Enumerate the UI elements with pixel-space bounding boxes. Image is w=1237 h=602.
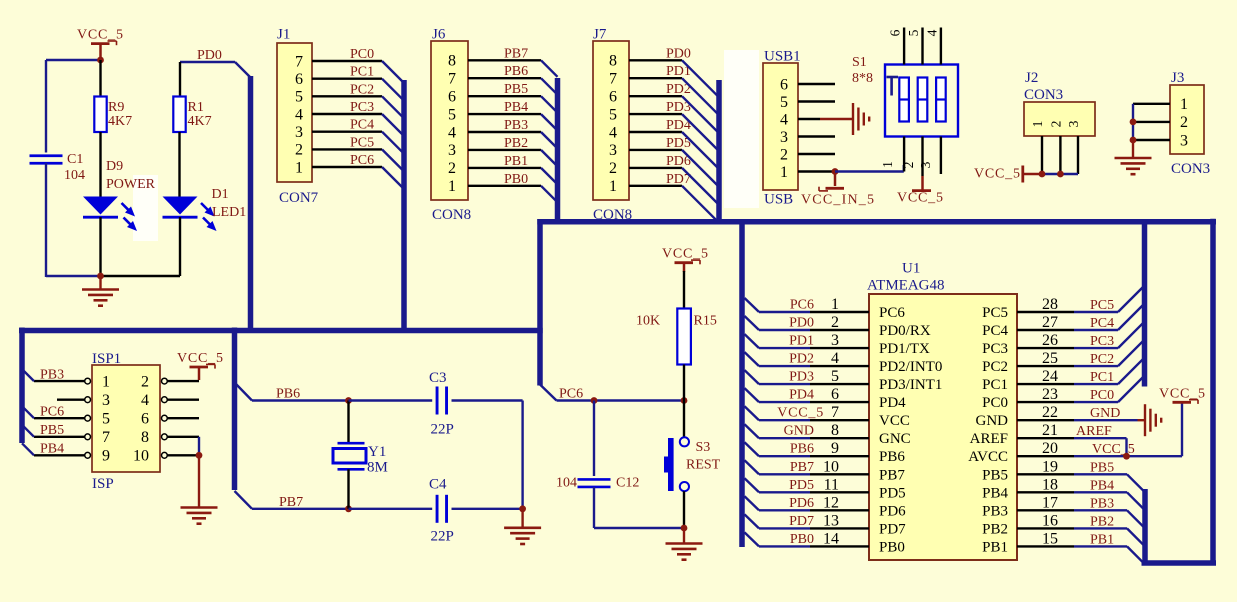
wire J3 common vertical — [1132, 104, 1134, 140]
svg-text:PD1: PD1 — [789, 334, 814, 349]
junction node J2 pin2 — [1057, 171, 1064, 178]
J6 pin wires — [468, 60, 541, 186]
svg-text:PC6: PC6 — [879, 305, 905, 321]
svg-text:AVCC: AVCC — [968, 449, 1008, 465]
USB1 pin wires — [798, 84, 835, 172]
bus ISP left vertical — [19, 328, 25, 444]
svg-text:CON3: CON3 — [1024, 87, 1063, 103]
svg-text:5: 5 — [102, 411, 110, 428]
svg-text:PB0: PB0 — [504, 172, 528, 187]
svg-text:R15: R15 — [694, 314, 717, 329]
svg-text:25: 25 — [1042, 350, 1058, 367]
svg-text:19: 19 — [1042, 458, 1058, 475]
svg-text:PC4: PC4 — [350, 118, 374, 133]
wire PB6 to C3 — [349, 399, 433, 401]
svg-text:1: 1 — [609, 178, 617, 195]
junction node J2 pin1 — [1039, 171, 1046, 178]
svg-text:VCC_5: VCC_5 — [77, 28, 124, 43]
U1 left net labels — [777, 298, 824, 547]
mcu U1 body ATMEAG48 — [869, 294, 1017, 560]
U1 pin numbers — [823, 296, 1058, 547]
switch S1 designator — [852, 55, 873, 86]
svg-text:PD7: PD7 — [879, 521, 906, 537]
connector ISP1 body — [92, 365, 160, 472]
svg-text:1: 1 — [1030, 121, 1045, 128]
wire R1 to D1 — [178, 132, 180, 197]
svg-text:VCC: VCC — [879, 413, 910, 429]
svg-text:3: 3 — [609, 142, 617, 159]
svg-text:ATMEAG48: ATMEAG48 — [867, 278, 945, 294]
svg-text:2: 2 — [780, 146, 788, 163]
net labels PD0-PD7 at J7 — [666, 46, 691, 187]
ground (ISP) — [181, 455, 218, 523]
wire PC6 horizontal — [557, 399, 685, 401]
led D9 POWER — [83, 159, 156, 231]
svg-text:VCC_5: VCC_5 — [177, 351, 224, 366]
wire VCC_5 to C1 branch (horizontal) — [46, 59, 101, 61]
junction node PB6/Y1 — [345, 397, 352, 404]
svg-text:PB5: PB5 — [1090, 460, 1114, 475]
svg-text:GND: GND — [784, 424, 814, 439]
svg-text:GND: GND — [976, 413, 1009, 429]
svg-text:PC2: PC2 — [350, 82, 374, 97]
bus J6 vertical — [555, 78, 561, 225]
svg-text:PB4: PB4 — [1090, 478, 1114, 493]
svg-text:PD6: PD6 — [879, 503, 906, 519]
wire D1 to ground rail — [179, 217, 181, 276]
svg-text:PD6: PD6 — [789, 496, 814, 511]
svg-text:PB4: PB4 — [982, 485, 1008, 501]
connector J2 designator — [1024, 70, 1063, 103]
junction node PC6/C12 — [591, 397, 598, 404]
svg-text:1: 1 — [448, 178, 456, 195]
wire PD0 diagonal into bus — [235, 62, 251, 78]
svg-text:AREF: AREF — [1076, 424, 1112, 439]
wire GND pin22 — [1074, 419, 1138, 421]
svg-text:PB3: PB3 — [504, 118, 528, 133]
wire Y1 top leg — [347, 401, 349, 445]
svg-text:U1: U1 — [902, 261, 920, 277]
ISP1 left diagonals from bus — [22, 369, 34, 455]
white patch near USB — [724, 50, 759, 208]
switch S3 REST — [664, 437, 721, 491]
J7 pin wires — [629, 60, 682, 186]
svg-text:5: 5 — [448, 106, 456, 123]
power port VCC_5 (ISP) — [177, 351, 224, 380]
svg-text:J2: J2 — [1025, 70, 1038, 86]
wire PB7 horizontal — [252, 508, 349, 510]
svg-text:3: 3 — [1180, 132, 1188, 149]
power port VCC_5 (S1) — [897, 176, 944, 206]
ground (USB pin4, rotated) — [820, 103, 869, 135]
svg-text:5: 5 — [906, 29, 921, 36]
svg-text:J3: J3 — [1171, 70, 1184, 86]
svg-text:4: 4 — [780, 111, 788, 128]
svg-text:6: 6 — [888, 29, 903, 36]
bus J7 vertical — [716, 80, 722, 225]
svg-text:8: 8 — [831, 422, 839, 439]
USB1 pin numbers 6-1 — [780, 76, 788, 181]
wire PD0 horizontal — [180, 62, 235, 97]
junction node C4/ground — [519, 505, 526, 512]
wire switch to ground node — [683, 491, 685, 528]
ground (crystal) — [504, 509, 541, 544]
svg-text:C3: C3 — [429, 370, 447, 386]
svg-text:11: 11 — [824, 476, 839, 493]
svg-text:PD0/RX: PD0/RX — [879, 323, 931, 339]
svg-text:PD2/INT0: PD2/INT0 — [879, 359, 942, 375]
svg-text:PC3: PC3 — [1090, 334, 1114, 349]
svg-text:5: 5 — [831, 368, 839, 385]
svg-text:CON3: CON3 — [1171, 161, 1210, 177]
junction node J3 pin2 — [1130, 119, 1137, 126]
connector J3 body CON3 — [1170, 85, 1204, 154]
svg-text:22: 22 — [1042, 404, 1058, 421]
S1 top pin wires — [904, 28, 941, 65]
svg-text:PB6: PB6 — [276, 387, 300, 402]
svg-text:PB6: PB6 — [504, 64, 528, 79]
svg-text:24: 24 — [1042, 368, 1058, 385]
ground (reset) — [666, 528, 703, 560]
J3 pin numbers 1 2 3 — [1180, 96, 1188, 149]
svg-text:CON8: CON8 — [432, 207, 471, 223]
bus horizontal mid (ISP row) — [19, 328, 543, 334]
svg-text:PC6: PC6 — [40, 405, 64, 420]
svg-text:1: 1 — [831, 296, 839, 313]
svg-text:4K7: 4K7 — [108, 114, 132, 129]
U1 right wires PB5-PB1 with diagonals down — [1074, 474, 1145, 563]
U1 right net labels — [1076, 298, 1135, 547]
svg-text:J1: J1 — [277, 27, 290, 43]
bus top of MCU section — [537, 219, 1216, 225]
label USB — [764, 192, 793, 208]
svg-text:6: 6 — [448, 89, 456, 106]
svg-text:8*8: 8*8 — [852, 71, 873, 86]
svg-text:1: 1 — [295, 159, 303, 176]
svg-text:2: 2 — [1180, 114, 1188, 131]
svg-text:13: 13 — [823, 512, 839, 529]
svg-text:7: 7 — [609, 71, 617, 88]
wire J2 bottom rail — [1042, 173, 1078, 175]
U1 left diagonals from bus — [745, 298, 760, 546]
junction node USB pin1 — [832, 168, 839, 175]
svg-text:PB2: PB2 — [1090, 514, 1114, 529]
S1 bottom pin numbers 1 2 3 — [880, 161, 933, 168]
svg-text:4: 4 — [924, 29, 939, 36]
svg-text:7: 7 — [295, 53, 303, 70]
bus U1 outer right vertical — [1210, 219, 1216, 563]
svg-text:PC2: PC2 — [1090, 352, 1114, 367]
svg-text:2: 2 — [295, 142, 303, 159]
svg-text:3: 3 — [102, 392, 110, 409]
S1 top pin numbers 6 5 4 — [888, 29, 940, 36]
svg-text:7: 7 — [831, 404, 839, 421]
connector J1 body CON7 — [277, 43, 312, 182]
svg-text:3: 3 — [295, 124, 303, 141]
S1 switch elements — [899, 78, 945, 122]
power port VCC_5 (J2, rotated) — [974, 166, 1042, 183]
svg-text:PC6: PC6 — [559, 387, 583, 402]
svg-text:PB7: PB7 — [790, 460, 814, 475]
junction node PC6/R15/S3 — [681, 397, 688, 404]
svg-text:GNC: GNC — [879, 431, 911, 447]
svg-text:PB3: PB3 — [1090, 496, 1114, 511]
svg-text:PC1: PC1 — [982, 377, 1008, 393]
svg-text:17: 17 — [1042, 494, 1058, 511]
net labels PC0-PC6 at J1 — [350, 47, 374, 168]
crystal Y1 8M — [333, 443, 388, 475]
wire bottom reset rail — [594, 527, 684, 529]
wire C12 bottom leg — [593, 487, 595, 528]
net label PD0 (top) — [197, 48, 222, 63]
J2 pin wires — [1042, 136, 1078, 174]
svg-text:PD0: PD0 — [666, 46, 691, 61]
J7 wire diagonals into bus — [682, 60, 719, 223]
svg-text:18: 18 — [1042, 476, 1058, 493]
svg-text:PD5: PD5 — [879, 485, 906, 501]
label CON7 — [279, 190, 319, 206]
J6 pin numbers 8-1 — [448, 53, 456, 196]
svg-text:10: 10 — [133, 448, 149, 465]
svg-text:PC1: PC1 — [1090, 370, 1114, 385]
wire VCC_5 to R15 — [683, 271, 685, 309]
svg-text:PC3: PC3 — [982, 341, 1008, 357]
U1 inside pin names — [879, 305, 1008, 555]
net labels PB3 PC6 PB5 PB4 — [40, 368, 64, 457]
net labels PB7-PB0 at J6 — [504, 46, 528, 187]
svg-text:2: 2 — [141, 373, 149, 390]
U1 right pin stubs — [1017, 312, 1074, 546]
svg-text:S1: S1 — [852, 55, 867, 70]
bus bottom right horizontal — [1142, 560, 1217, 566]
svg-text:8: 8 — [448, 53, 456, 70]
svg-text:PC0: PC0 — [1090, 388, 1114, 403]
svg-text:1: 1 — [1180, 96, 1188, 113]
bus U1 left vertical — [739, 219, 745, 547]
net label PC6 (reset) — [559, 387, 583, 402]
svg-text:4: 4 — [448, 124, 456, 141]
wire R15 to PC6 node — [683, 365, 685, 401]
svg-text:22P: 22P — [431, 422, 454, 438]
svg-text:4: 4 — [609, 124, 617, 141]
svg-text:VCC_5: VCC_5 — [1159, 387, 1206, 402]
svg-text:PC3: PC3 — [350, 100, 374, 115]
svg-text:PC4: PC4 — [1090, 316, 1114, 331]
svg-text:PB1: PB1 — [504, 154, 528, 169]
U1 left pin wires — [759, 312, 869, 546]
svg-text:3: 3 — [831, 332, 839, 349]
svg-text:PC5: PC5 — [982, 305, 1008, 321]
connector J6 body CON8 — [431, 41, 468, 200]
wire D9 to ground rail — [99, 217, 101, 277]
svg-text:C4: C4 — [429, 477, 447, 493]
label CON8 (J7) — [593, 207, 632, 223]
svg-text:8M: 8M — [367, 460, 388, 476]
svg-text:2: 2 — [901, 162, 916, 169]
svg-text:Y1: Y1 — [368, 444, 386, 460]
svg-text:USB: USB — [764, 192, 793, 208]
svg-text:6: 6 — [295, 71, 303, 88]
svg-text:22P: 22P — [431, 529, 454, 545]
capacitor C3 22P — [429, 370, 454, 438]
svg-text:1: 1 — [880, 161, 895, 168]
wire C1 top leg — [45, 60, 47, 153]
svg-text:7: 7 — [448, 71, 456, 88]
svg-text:D1: D1 — [212, 187, 229, 202]
label ISP — [92, 476, 114, 492]
junction node reset ground — [681, 525, 688, 532]
svg-text:PD0: PD0 — [789, 316, 814, 331]
svg-text:5: 5 — [295, 89, 303, 106]
svg-text:4: 4 — [141, 392, 149, 409]
svg-text:6: 6 — [141, 411, 149, 428]
svg-text:2: 2 — [1048, 121, 1063, 128]
svg-text:USB1: USB1 — [764, 49, 801, 65]
svg-text:2: 2 — [831, 314, 839, 331]
svg-text:PB5: PB5 — [40, 423, 64, 438]
svg-text:R1: R1 — [188, 100, 204, 115]
wire PC6 diagonal from bus — [540, 385, 557, 401]
connector USB1 body — [763, 63, 798, 190]
svg-text:VCC_5: VCC_5 — [777, 406, 824, 421]
svg-text:PD3/INT1: PD3/INT1 — [879, 377, 942, 393]
connector J7 designator — [593, 27, 607, 43]
junction node PB7/Y1 — [345, 505, 352, 512]
wire crystal caps right vertical — [521, 401, 523, 509]
svg-text:9: 9 — [831, 440, 839, 457]
wire PB7 to C4 — [349, 508, 433, 510]
svg-text:PD2: PD2 — [789, 352, 814, 367]
wire C12 top leg — [593, 401, 595, 477]
power port VCC_5 (AVCC) — [1159, 387, 1206, 404]
wire AVCC pin20 — [1074, 402, 1182, 456]
svg-text:PD1/TX: PD1/TX — [879, 341, 930, 357]
svg-text:PB1: PB1 — [982, 539, 1008, 555]
svg-text:2: 2 — [448, 160, 456, 177]
J6 wire diagonals into bus — [541, 60, 558, 202]
svg-text:PB5: PB5 — [982, 467, 1008, 483]
junction node at VCC_5 / R9 / C1 — [97, 57, 104, 64]
svg-text:VCC_IN_5: VCC_IN_5 — [801, 193, 875, 208]
J7 pin numbers 8-1 — [609, 53, 617, 196]
svg-text:PB5: PB5 — [504, 82, 528, 97]
svg-text:PD4: PD4 — [789, 388, 814, 403]
svg-text:PC5: PC5 — [350, 135, 374, 150]
svg-text:20: 20 — [1042, 440, 1058, 457]
svg-text:7: 7 — [102, 429, 110, 446]
svg-text:8: 8 — [609, 53, 617, 70]
wire USB pin1 to S1 — [835, 165, 904, 172]
svg-text:PB7: PB7 — [879, 467, 905, 483]
wire AREF pin21 — [1074, 438, 1127, 456]
svg-text:1: 1 — [780, 164, 788, 181]
junction node ISP pin10 — [196, 452, 203, 459]
svg-text:ISP: ISP — [92, 476, 114, 492]
svg-text:PD4: PD4 — [879, 395, 906, 411]
svg-text:PB3: PB3 — [982, 503, 1008, 519]
ground (pin22, rotated) — [1138, 404, 1162, 436]
svg-text:C1: C1 — [67, 152, 83, 167]
junction node J3 pin3 — [1130, 137, 1137, 144]
svg-text:2: 2 — [609, 160, 617, 177]
svg-text:VCC_5: VCC_5 — [897, 191, 944, 206]
white patch near D9 — [133, 175, 158, 241]
svg-text:PB3: PB3 — [40, 368, 64, 383]
svg-text:PD5: PD5 — [789, 478, 814, 493]
svg-text:LED1: LED1 — [212, 205, 246, 220]
svg-text:1: 1 — [102, 373, 110, 390]
svg-text:VCC_5: VCC_5 — [974, 167, 1021, 182]
svg-text:PB0: PB0 — [790, 532, 814, 547]
connector USB1 designator — [764, 49, 801, 65]
svg-text:GND: GND — [1090, 406, 1120, 421]
svg-text:104: 104 — [64, 168, 85, 183]
connector J2 body CON3 — [1024, 102, 1095, 136]
wire VCC_5 down to R9 — [99, 60, 101, 97]
bus PD0 vertical — [248, 76, 254, 333]
svg-text:AREF: AREF — [970, 431, 1008, 447]
svg-text:PC1: PC1 — [350, 65, 374, 80]
svg-text:POWER: POWER — [106, 177, 156, 192]
svg-text:6: 6 — [831, 386, 839, 403]
wire C3 to right leg — [452, 399, 523, 401]
svg-text:PB1: PB1 — [1090, 532, 1114, 547]
J3 pin wires — [1133, 104, 1170, 140]
svg-text:9: 9 — [102, 448, 110, 465]
svg-text:21: 21 — [1042, 422, 1058, 439]
svg-text:PB6: PB6 — [790, 442, 814, 457]
label CON3 (J3) — [1171, 161, 1210, 177]
svg-text:6: 6 — [780, 76, 788, 93]
connector ISP1 designator — [92, 351, 121, 367]
svg-text:3: 3 — [448, 142, 456, 159]
svg-text:10K: 10K — [636, 314, 660, 329]
svg-text:PD0: PD0 — [197, 48, 222, 63]
svg-text:PB2: PB2 — [982, 521, 1008, 537]
svg-text:5: 5 — [780, 94, 788, 111]
svg-text:14: 14 — [823, 530, 839, 547]
J1 pin wires — [312, 61, 382, 167]
junction node bottom rail — [97, 273, 104, 280]
J1 wire diagonals into bus — [382, 61, 403, 188]
svg-text:12: 12 — [823, 494, 839, 511]
svg-text:26: 26 — [1042, 332, 1058, 349]
svg-text:D9: D9 — [106, 159, 123, 174]
svg-text:REST: REST — [686, 458, 721, 473]
S1 bottom pin wires — [904, 137, 941, 177]
svg-text:VCC_5: VCC_5 — [662, 247, 709, 262]
connector J1 designator — [277, 27, 290, 43]
wire bottom rail C1-D9-D1 — [46, 275, 180, 277]
svg-text:S3: S3 — [696, 440, 711, 455]
svg-text:PB6: PB6 — [879, 449, 905, 465]
svg-text:4K7: 4K7 — [188, 114, 212, 129]
svg-text:PC6: PC6 — [790, 298, 814, 313]
J2 pin numbers 1 2 3 (rotated) — [1030, 120, 1081, 127]
ISP1 pin numbers — [102, 373, 149, 464]
svg-text:5: 5 — [609, 106, 617, 123]
connector J3 designator — [1171, 70, 1184, 86]
svg-text:4: 4 — [295, 106, 303, 123]
capacitor C1 — [30, 152, 86, 183]
svg-text:28: 28 — [1042, 296, 1058, 313]
wire PB7 diagonal from bus — [235, 491, 253, 509]
svg-text:J6: J6 — [432, 27, 446, 43]
bus J1 vertical — [401, 80, 407, 333]
svg-text:3: 3 — [1066, 120, 1081, 127]
switch S1 body — [885, 65, 958, 137]
svg-text:8: 8 — [141, 429, 149, 446]
